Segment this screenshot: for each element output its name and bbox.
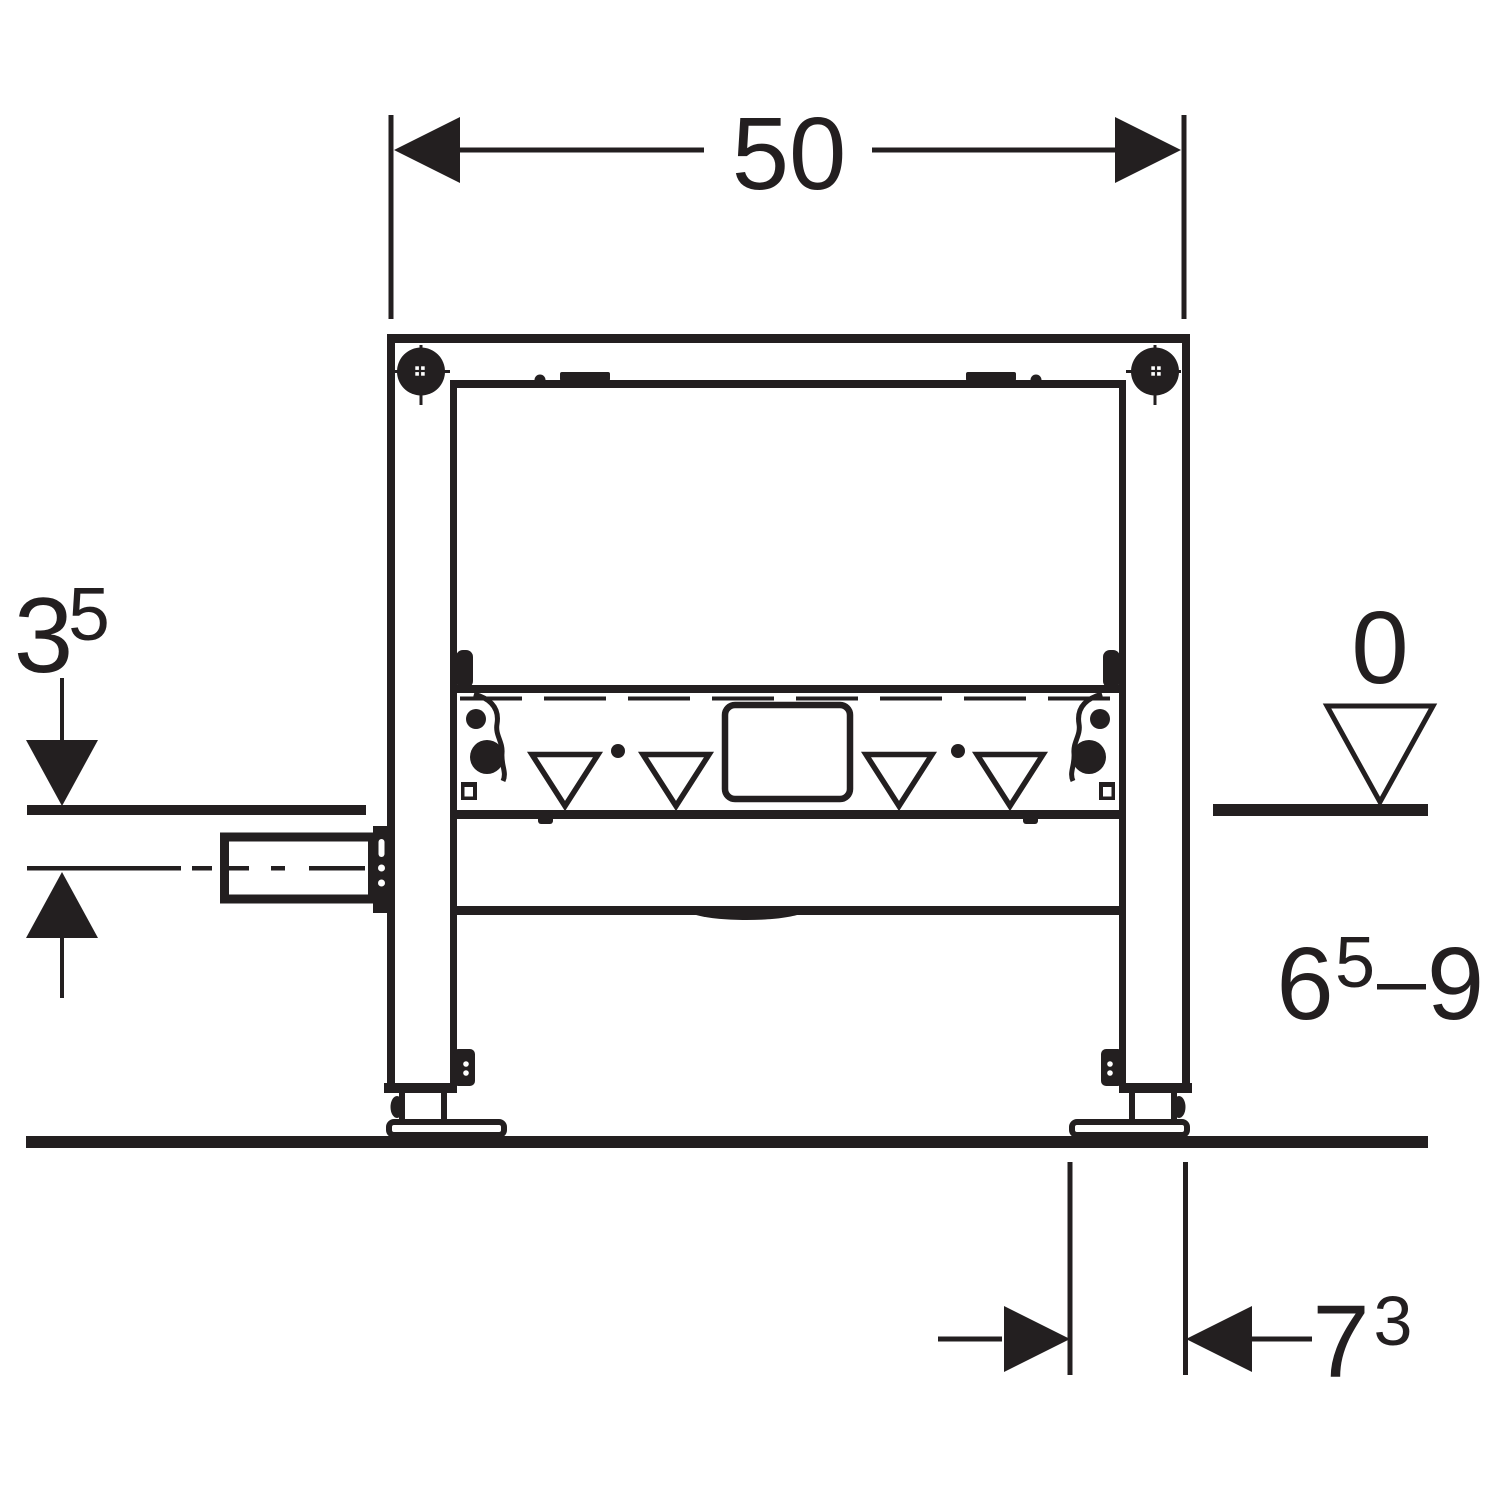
- datum triangle: [1327, 706, 1433, 802]
- dimension 73: left tail: [938, 1337, 1002, 1342]
- dimension 73: right extension line: [1183, 1162, 1188, 1375]
- dimension 50: left extension line: [389, 115, 394, 319]
- svg-text:5: 5: [1335, 923, 1375, 1003]
- svg-text:0: 0: [1351, 590, 1408, 705]
- pipe connector: [373, 826, 390, 913]
- left anchor dot: [611, 744, 625, 758]
- frame left leg outer line: [387, 334, 395, 1091]
- dimension 50: left arrowhead: [394, 117, 460, 183]
- pipe centerline dashes inside pipe: [229, 866, 249, 871]
- down arrow line: [60, 678, 64, 742]
- lower rail bottom line: [453, 906, 1123, 915]
- water pipe: [225, 837, 373, 899]
- down arrow head: [26, 740, 98, 806]
- frame right leg outer line: [1182, 334, 1190, 1091]
- dimension 73: left arrowhead: [1004, 1306, 1070, 1372]
- center mounting square: [725, 705, 850, 799]
- rail triangle 1: [532, 755, 598, 807]
- frame top rail line: [387, 334, 1190, 343]
- rail bottom line: [453, 810, 1123, 819]
- dimension 73: left extension line: [1068, 1162, 1073, 1375]
- left leg lower bracket: [453, 1049, 475, 1086]
- svg-text:5: 5: [68, 572, 110, 656]
- datum level line: [1213, 804, 1428, 816]
- top clip left: [560, 372, 610, 381]
- svg-text:7: 7: [1312, 1284, 1369, 1399]
- left rail bracket small circle: [466, 709, 486, 729]
- left corner fixing circle: [397, 348, 445, 396]
- left leg bottom line: [384, 1083, 457, 1093]
- wall finish line left: [27, 805, 366, 815]
- left half details mirrored to right: [384, 345, 625, 1135]
- left foot plate: [389, 1122, 504, 1135]
- left rail bracket big circle: [470, 740, 504, 774]
- svg-text:3: 3: [14, 575, 74, 695]
- dimension 73: right arrowhead: [1186, 1306, 1252, 1372]
- floor line: [26, 1136, 1428, 1148]
- up arrow head: [26, 872, 98, 938]
- frame left leg inner line: [450, 380, 457, 1091]
- rail triangle 2: [643, 755, 709, 807]
- left blob above rail: [456, 650, 473, 688]
- lower rail arc bump: [693, 906, 800, 920]
- frame right leg inner line: [1119, 380, 1126, 1091]
- dimension 50: line left segment: [459, 148, 704, 153]
- dimension 50: right extension line: [1182, 115, 1187, 319]
- left rail bracket outline: [474, 694, 504, 781]
- rail triangle 4: [977, 755, 1043, 807]
- up arrow line: [60, 938, 64, 998]
- left nub below rail: [538, 815, 553, 824]
- svg-text:50: 50: [732, 96, 847, 211]
- left foot tube: [399, 1091, 405, 1121]
- left foot nub: [391, 1096, 404, 1118]
- left corner crosshair: [395, 370, 450, 373]
- dimension 73: right tail: [1252, 1337, 1312, 1342]
- svg-text:6: 6: [1276, 926, 1333, 1041]
- frame inner top line: [450, 380, 1126, 388]
- svg-text:3: 3: [1374, 1282, 1413, 1360]
- rail top line: [453, 685, 1123, 693]
- left rail bracket square: [461, 782, 477, 800]
- svg-text:9: 9: [1427, 926, 1484, 1041]
- dimension 50: line right segment: [872, 148, 1117, 153]
- top clip dot left: [535, 375, 546, 386]
- pipe centerline: [27, 866, 181, 871]
- rail triangle 3: [866, 755, 932, 807]
- dimension 50: right arrowhead: [1115, 117, 1181, 183]
- rail dashed line: [460, 697, 1116, 701]
